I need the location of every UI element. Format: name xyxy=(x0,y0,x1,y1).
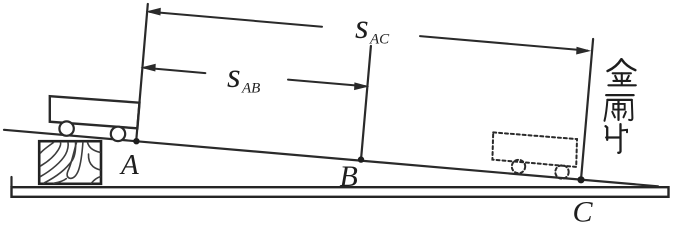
dashed cart wheel left xyxy=(512,160,525,173)
ground left corner tick xyxy=(10,177,12,187)
cart body xyxy=(50,96,140,128)
incline (ramp board) xyxy=(4,130,658,187)
wood grain xyxy=(41,143,101,184)
s_AB right arrow xyxy=(288,80,367,90)
cart wheel right xyxy=(111,127,125,141)
s_AC left arrow xyxy=(148,8,322,26)
metal sheet line at C xyxy=(581,39,593,180)
svg-text:AB: AB xyxy=(241,81,260,97)
ground xyxy=(12,187,669,197)
cart wheel left xyxy=(59,121,73,135)
svg-text:s: s xyxy=(355,7,369,46)
s_AB left arrow xyxy=(143,64,206,73)
node C dot xyxy=(577,176,584,183)
measurement line at A xyxy=(136,4,148,141)
dashed cart wheel right xyxy=(555,165,568,178)
label 片 (sheet) xyxy=(606,124,627,153)
svg-text:A: A xyxy=(119,149,139,181)
label 属 (belong) xyxy=(605,95,634,121)
dashed cart body (final position) xyxy=(492,132,577,167)
measurement line at B xyxy=(361,46,371,160)
svg-text:AC: AC xyxy=(369,32,390,48)
svg-text:s: s xyxy=(227,56,241,95)
node A dot xyxy=(133,138,139,144)
wooden block xyxy=(39,141,101,184)
node B dot xyxy=(358,156,364,162)
label 金 (metal) xyxy=(608,59,636,85)
s_AC right arrow xyxy=(420,36,589,54)
svg-text:B: B xyxy=(340,160,358,193)
svg-text:C: C xyxy=(573,196,594,225)
